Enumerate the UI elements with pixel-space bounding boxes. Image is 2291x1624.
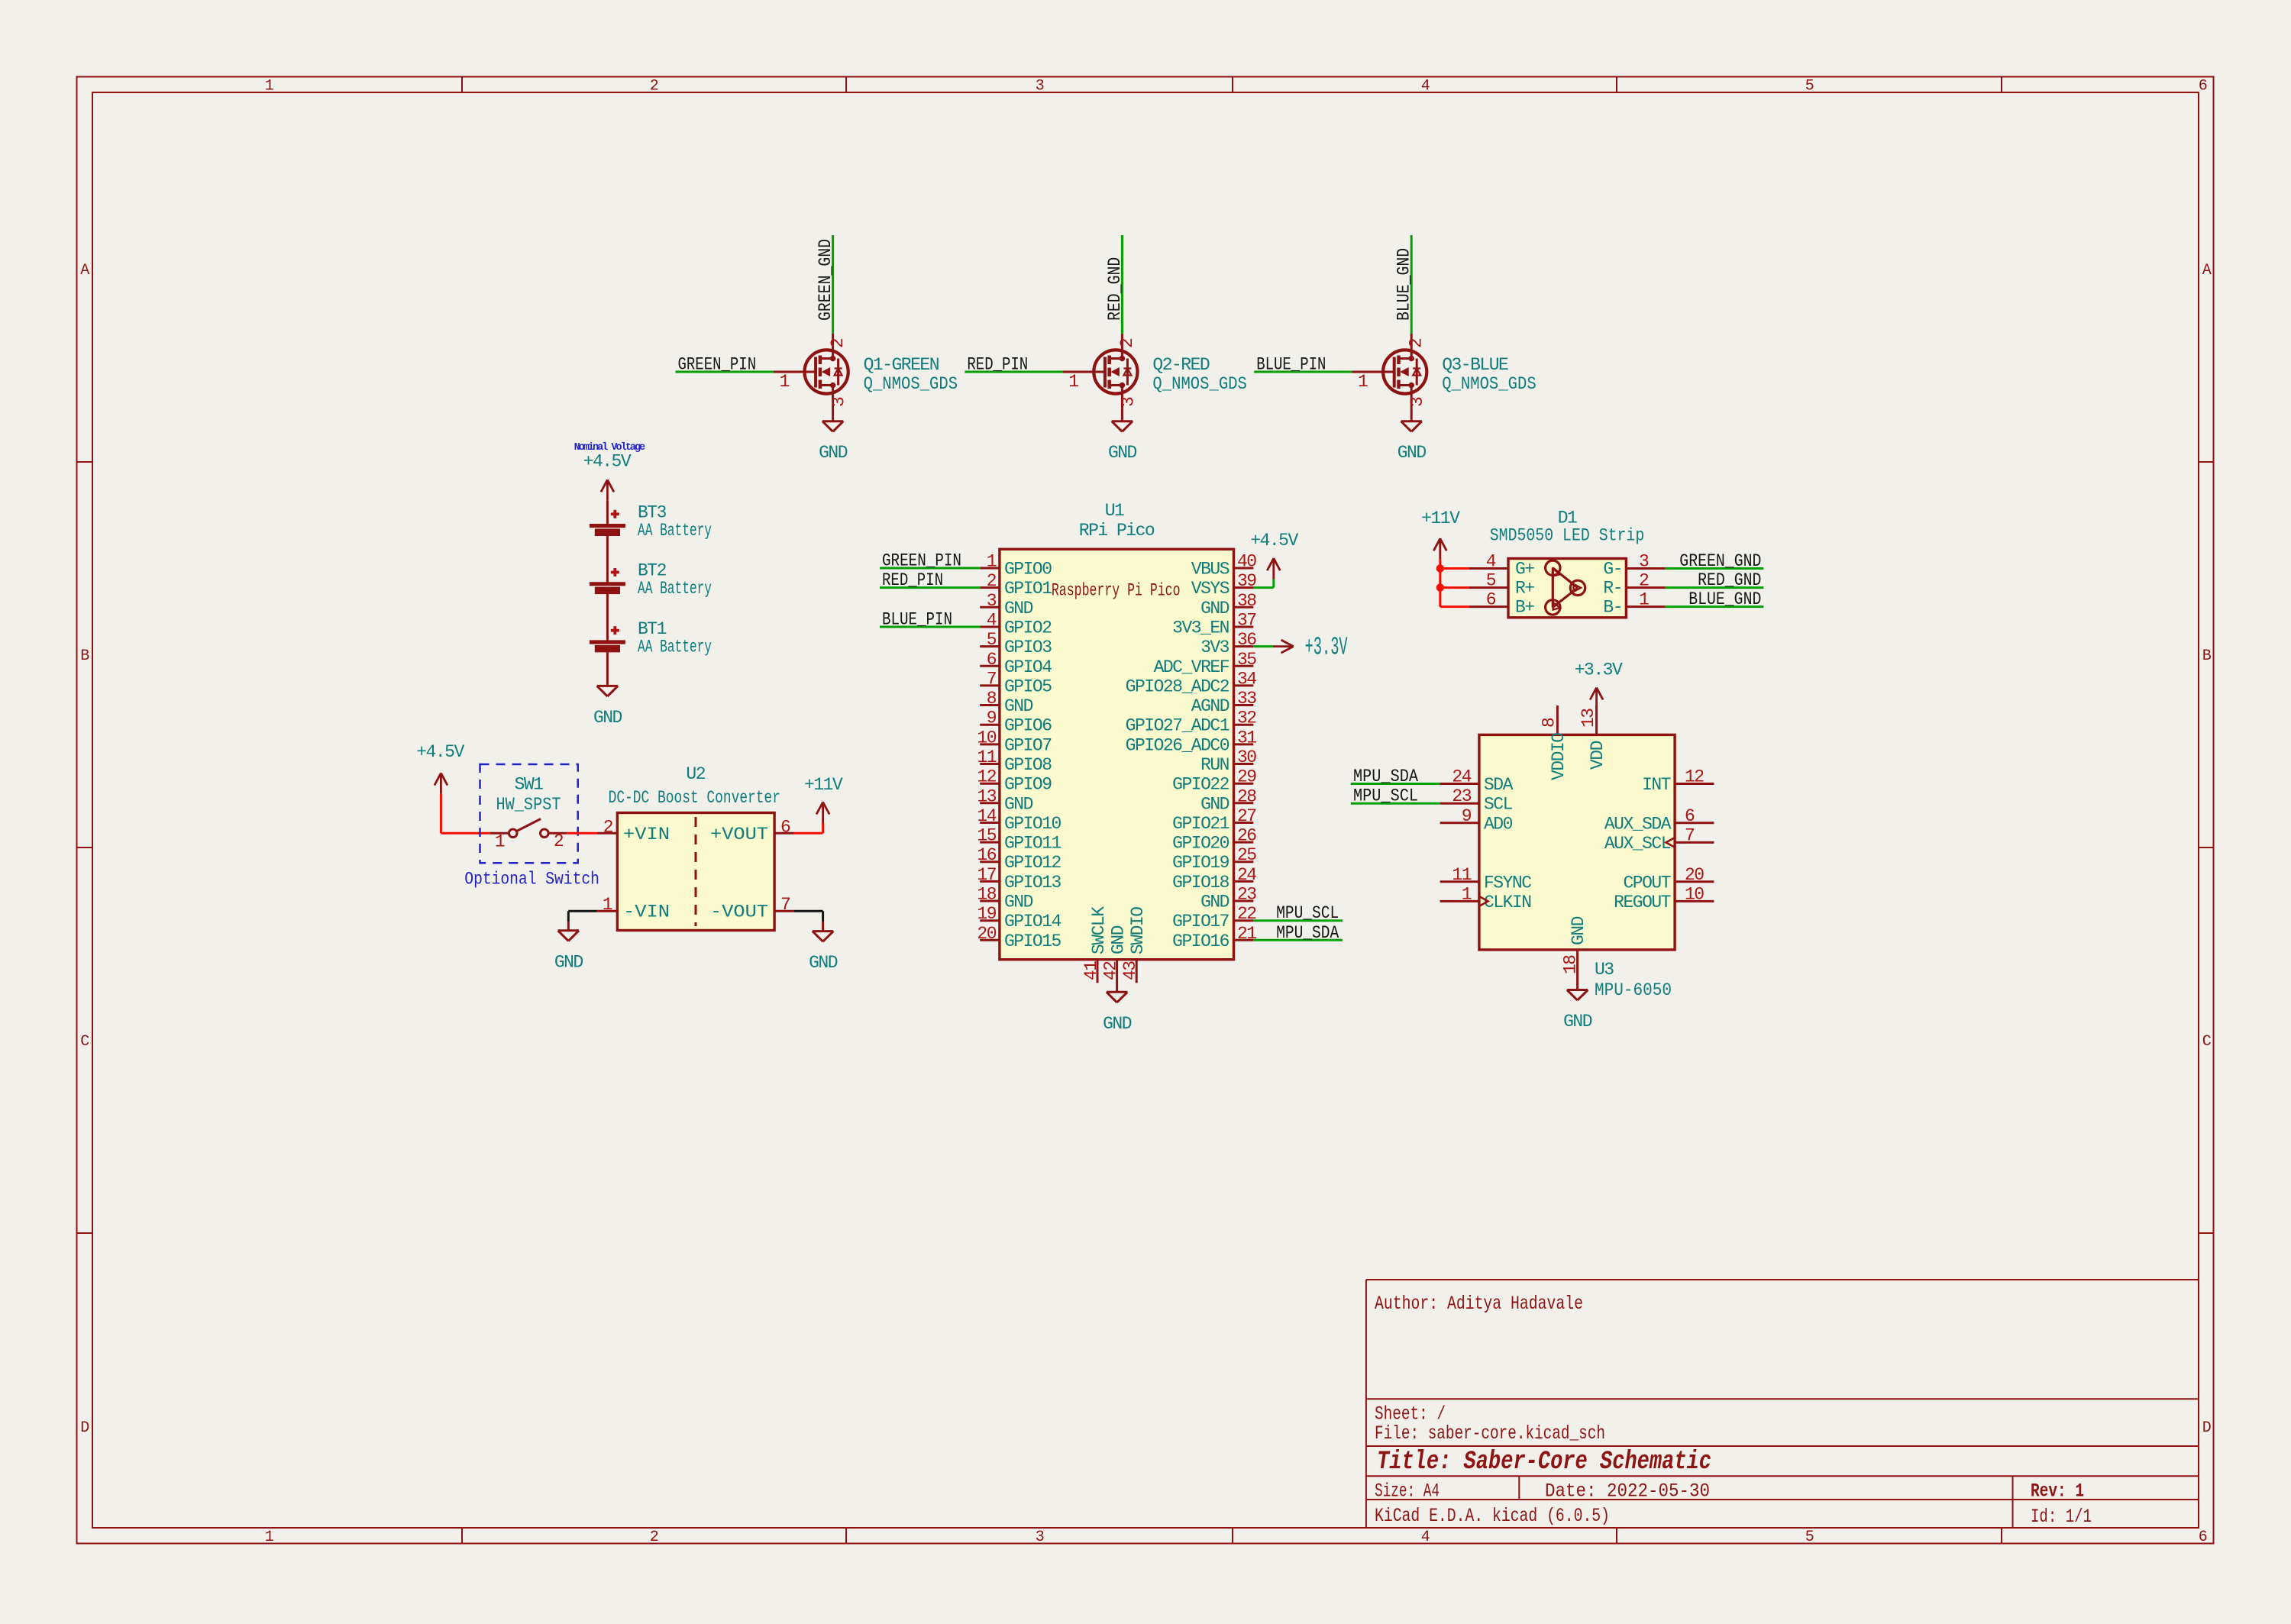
svg-text:32: 32 bbox=[1237, 709, 1256, 728]
svg-text:GPIO9: GPIO9 bbox=[1004, 775, 1052, 795]
svg-text:19: 19 bbox=[977, 904, 996, 924]
svg-text:10: 10 bbox=[977, 728, 996, 747]
svg-text:GND: GND bbox=[1004, 696, 1033, 716]
svg-text:GPIO19: GPIO19 bbox=[1172, 853, 1230, 873]
svg-text:GND: GND bbox=[1109, 925, 1129, 954]
U1 pin 35 ADC_VREF bbox=[1154, 650, 1257, 677]
svg-text:35: 35 bbox=[1237, 650, 1256, 670]
svg-text:+4.5V: +4.5V bbox=[416, 742, 464, 762]
svg-text:GND: GND bbox=[1004, 794, 1033, 814]
svg-text:5: 5 bbox=[987, 630, 997, 650]
svg-text:4: 4 bbox=[1421, 78, 1430, 95]
U1 pin 5 GPIO3 bbox=[980, 630, 1052, 657]
U1 pin 28 GND bbox=[1200, 786, 1256, 814]
svg-text:C: C bbox=[80, 1033, 89, 1051]
svg-text:7: 7 bbox=[987, 669, 996, 689]
svg-text:+11V: +11V bbox=[1421, 509, 1460, 528]
microcontroller U1 body bbox=[1000, 549, 1234, 959]
svg-text:10: 10 bbox=[1685, 884, 1704, 904]
svg-text:5: 5 bbox=[1805, 1529, 1814, 1546]
svg-text:GPIO22: GPIO22 bbox=[1172, 775, 1230, 795]
U1 pin 24 GPIO18 bbox=[1172, 865, 1256, 893]
U1 pin 26 GPIO20 bbox=[1172, 826, 1256, 854]
wire net GREEN_PIN horizontal bbox=[676, 371, 774, 373]
svg-text:25: 25 bbox=[1237, 845, 1256, 865]
svg-text:3: 3 bbox=[1118, 397, 1138, 407]
svg-text:11: 11 bbox=[1452, 865, 1471, 885]
svg-text:B-: B- bbox=[1603, 598, 1622, 618]
svg-text:4: 4 bbox=[1486, 552, 1496, 572]
svg-text:U2: U2 bbox=[686, 764, 705, 784]
svg-text:BLUE_GND: BLUE_GND bbox=[1688, 589, 1761, 609]
svg-text:1: 1 bbox=[265, 78, 274, 95]
svg-text:GND: GND bbox=[1398, 443, 1427, 463]
svg-text:MPU_SCL: MPU_SCL bbox=[1353, 786, 1418, 806]
frame row ticks left bbox=[77, 462, 93, 1233]
svg-text:BT2: BT2 bbox=[638, 561, 667, 581]
svg-text:+11V: +11V bbox=[804, 775, 843, 795]
frame column ticks top bbox=[462, 77, 2002, 93]
svg-text:GPIO11: GPIO11 bbox=[1004, 834, 1061, 854]
svg-text:G+: G+ bbox=[1515, 560, 1534, 580]
svg-text:SMD5050 LED Strip: SMD5050 LED Strip bbox=[1490, 526, 1645, 546]
svg-text:GPIO2: GPIO2 bbox=[1004, 618, 1052, 638]
svg-text:9: 9 bbox=[987, 709, 997, 728]
svg-text:28: 28 bbox=[1237, 786, 1256, 806]
svg-text:18: 18 bbox=[977, 885, 996, 905]
svg-text:1: 1 bbox=[265, 1529, 274, 1546]
svg-text:37: 37 bbox=[1237, 611, 1256, 631]
svg-text:AD0: AD0 bbox=[1484, 814, 1513, 834]
svg-text:GPIO28_ADC2: GPIO28_ADC2 bbox=[1126, 676, 1230, 696]
svg-text:14: 14 bbox=[977, 806, 996, 826]
U3 pin 23 SCL bbox=[1440, 786, 1513, 815]
svg-text:GREEN_PIN: GREEN_PIN bbox=[678, 355, 757, 375]
U1 pin 2 GPIO1 bbox=[980, 571, 1052, 599]
svg-text:1: 1 bbox=[1358, 372, 1368, 392]
wire MPU_SCL at U1 pin 22 bbox=[1253, 919, 1343, 922]
U3 pin 7 AUX_SCL bbox=[1604, 825, 1714, 854]
led strip D1 body bbox=[1508, 559, 1626, 618]
U1 pin 10 GPIO7 bbox=[977, 728, 1051, 755]
svg-text:GPIO12: GPIO12 bbox=[1004, 853, 1061, 873]
svg-text:RED_GND: RED_GND bbox=[1105, 257, 1125, 321]
svg-text:3: 3 bbox=[829, 397, 849, 407]
svg-text:2: 2 bbox=[650, 78, 658, 95]
svg-text:3: 3 bbox=[1036, 78, 1044, 95]
svg-text:RED_PIN: RED_PIN bbox=[882, 570, 943, 590]
svg-text:R+: R+ bbox=[1515, 579, 1534, 599]
svg-text:2: 2 bbox=[1407, 338, 1427, 348]
svg-text:GPIO21: GPIO21 bbox=[1172, 814, 1230, 834]
svg-text:BLUE_PIN: BLUE_PIN bbox=[1256, 355, 1326, 375]
ground GND at Q1-GREEN bbox=[819, 421, 848, 463]
U3 pin 18 GND bbox=[1561, 916, 1589, 990]
wire MPU_SDA at U1 pin 21 bbox=[1253, 939, 1343, 941]
svg-text:ADC_VREF: ADC_VREF bbox=[1154, 657, 1230, 677]
svg-text:+VIN: +VIN bbox=[623, 825, 670, 844]
svg-text:6: 6 bbox=[1486, 590, 1496, 610]
svg-text:+3.3V: +3.3V bbox=[1305, 634, 1348, 662]
D1 LED glyph bbox=[1546, 560, 1585, 615]
svg-text:Raspberry Pi Pico: Raspberry Pi Pico bbox=[1052, 581, 1181, 601]
U1 pin 40 VBUS bbox=[1191, 552, 1257, 580]
U1 pin 16 GPIO12 bbox=[977, 845, 1061, 873]
U1 pin 41 SWCLK bbox=[1081, 906, 1109, 983]
U3 CLKIN clock marker bbox=[1479, 896, 1488, 906]
U1 pin 7 GPIO5 bbox=[980, 669, 1052, 696]
svg-text:GPIO1: GPIO1 bbox=[1004, 579, 1052, 599]
svg-text:BT1: BT1 bbox=[638, 619, 667, 639]
svg-text:27: 27 bbox=[1237, 806, 1256, 826]
svg-text:GPIO16: GPIO16 bbox=[1172, 931, 1230, 951]
svg-text:30: 30 bbox=[1237, 747, 1256, 767]
svg-text:3: 3 bbox=[987, 591, 997, 611]
svg-text:16: 16 bbox=[977, 845, 996, 865]
svg-text:Q2-RED: Q2-RED bbox=[1152, 355, 1210, 375]
wire U2 -VOUT to GND (black) bbox=[794, 911, 823, 931]
frame row ticks right bbox=[2199, 462, 2215, 1233]
svg-text:Q_NMOS_GDS: Q_NMOS_GDS bbox=[1152, 374, 1247, 394]
power symbol +11V at U2 bbox=[804, 775, 843, 823]
svg-text:GND: GND bbox=[1004, 599, 1033, 618]
frame column ticks bottom bbox=[462, 1528, 2002, 1544]
svg-text:INT: INT bbox=[1642, 775, 1671, 795]
svg-text:MPU_SCL: MPU_SCL bbox=[1276, 903, 1339, 923]
svg-text:DC-DC Boost Converter: DC-DC Boost Converter bbox=[609, 788, 780, 808]
svg-text:Q_NMOS_GDS: Q_NMOS_GDS bbox=[1442, 374, 1536, 394]
wire MPU_SDA to U3 pin 24 bbox=[1351, 783, 1440, 785]
power symbol +4.5V at battery bbox=[583, 452, 632, 501]
U1 pin 19 GPIO14 bbox=[977, 904, 1061, 931]
svg-text:2: 2 bbox=[1117, 338, 1137, 348]
svg-text:GPIO8: GPIO8 bbox=[1004, 755, 1052, 775]
svg-text:GND: GND bbox=[1200, 794, 1230, 814]
svg-text:1: 1 bbox=[1639, 590, 1649, 610]
svg-text:20: 20 bbox=[1685, 865, 1704, 885]
svg-text:GPIO26_ADC0: GPIO26_ADC0 bbox=[1126, 735, 1230, 755]
svg-text:18: 18 bbox=[1561, 955, 1581, 974]
svg-text:RED_GND: RED_GND bbox=[1698, 570, 1761, 590]
U1 pin 17 GPIO13 bbox=[977, 865, 1061, 893]
svg-text:2: 2 bbox=[603, 818, 613, 838]
svg-text:GPIO20: GPIO20 bbox=[1172, 834, 1230, 854]
battery BT2 bbox=[590, 532, 625, 590]
U1 pin 21 GPIO16 bbox=[1172, 924, 1256, 951]
svg-text:4: 4 bbox=[987, 611, 997, 631]
battery BT1 bbox=[590, 590, 625, 648]
svg-text:GPIO0: GPIO0 bbox=[1004, 560, 1052, 580]
svg-text:FSYNC: FSYNC bbox=[1484, 873, 1531, 893]
U1 pin 30 RUN bbox=[1200, 747, 1256, 775]
svg-text:Optional Switch: Optional Switch bbox=[464, 869, 599, 889]
svg-text:7: 7 bbox=[1685, 825, 1694, 845]
U3 pin 1 CLKIN bbox=[1440, 884, 1531, 912]
svg-text:Nominal Voltage: Nominal Voltage bbox=[574, 442, 645, 454]
U1 pin 23 GND bbox=[1200, 885, 1256, 912]
svg-text:13: 13 bbox=[977, 786, 996, 806]
svg-text:29: 29 bbox=[1237, 767, 1256, 787]
wire net BLUE_GND vertical bbox=[1410, 235, 1413, 334]
svg-text:CLKIN: CLKIN bbox=[1484, 893, 1531, 912]
wire battery BT1 to GND bbox=[606, 649, 609, 686]
ground GND at Q2-RED bbox=[1108, 421, 1137, 463]
D1 pin 2 R- bbox=[1603, 571, 1665, 599]
svg-text:MPU_SDA: MPU_SDA bbox=[1276, 923, 1339, 943]
U3 pin 13 VDD bbox=[1578, 705, 1608, 770]
svg-text:24: 24 bbox=[1452, 767, 1471, 787]
U3 AUX_SCL clock marker bbox=[1666, 838, 1675, 848]
svg-text:6: 6 bbox=[780, 818, 790, 838]
U1 pin 11 GPIO8 bbox=[977, 747, 1052, 775]
svg-text:GPIO27_ADC1: GPIO27_ADC1 bbox=[1126, 716, 1230, 736]
wire U2 +VOUT to +11V (red) bbox=[794, 823, 823, 833]
svg-text:1: 1 bbox=[1462, 884, 1472, 904]
svg-text:GREEN_GND: GREEN_GND bbox=[1679, 551, 1761, 571]
svg-text:GND: GND bbox=[554, 952, 583, 972]
svg-text:GPIO15: GPIO15 bbox=[1004, 931, 1061, 951]
svg-text:5: 5 bbox=[1805, 78, 1814, 95]
svg-text:11: 11 bbox=[977, 747, 996, 767]
svg-text:MPU-6050: MPU-6050 bbox=[1595, 980, 1672, 1000]
svg-text:GPIO14: GPIO14 bbox=[1004, 912, 1061, 931]
U1 pin 27 GPIO21 bbox=[1172, 806, 1255, 834]
svg-text:BLUE_PIN: BLUE_PIN bbox=[882, 610, 952, 630]
svg-text:MPU_SDA: MPU_SDA bbox=[1353, 767, 1418, 786]
svg-text:AA Battery: AA Battery bbox=[638, 637, 712, 657]
svg-text:26: 26 bbox=[1237, 826, 1256, 846]
svg-text:G-: G- bbox=[1603, 560, 1622, 580]
svg-text:GND: GND bbox=[1108, 443, 1137, 463]
svg-text:7: 7 bbox=[780, 895, 790, 915]
svg-text:20: 20 bbox=[977, 924, 996, 944]
transistor Q2-RED bbox=[1063, 334, 1138, 421]
svg-text:HW_SPST: HW_SPST bbox=[496, 795, 561, 815]
svg-text:-VIN: -VIN bbox=[623, 902, 670, 922]
U1 pin 6 GPIO4 bbox=[980, 650, 1052, 677]
svg-text:File: saber-core.kicad_sch: File: saber-core.kicad_sch bbox=[1375, 1422, 1605, 1445]
svg-text:VDDIO: VDDIO bbox=[1549, 733, 1569, 780]
U1 pin 29 GPIO22 bbox=[1172, 767, 1256, 795]
title block frame bbox=[1366, 1280, 2199, 1528]
svg-text:D: D bbox=[2202, 1419, 2211, 1437]
U1 pin 34 GPIO28_ADC2 bbox=[1126, 669, 1257, 696]
svg-text:33: 33 bbox=[1237, 689, 1256, 709]
transistor Q3-BLUE bbox=[1352, 334, 1427, 421]
svg-text:GPIO13: GPIO13 bbox=[1004, 873, 1061, 893]
U1 pin 31 GPIO26_ADC0 bbox=[1126, 728, 1257, 755]
svg-text:-VOUT: -VOUT bbox=[710, 902, 768, 922]
U1 pin 32 GPIO27_ADC1 bbox=[1126, 709, 1257, 736]
U1 pin 42 GND bbox=[1101, 925, 1129, 992]
U1 pin 9 GPIO6 bbox=[980, 709, 1052, 736]
U1 pin 4 GPIO2 bbox=[980, 611, 1052, 638]
svg-text:42: 42 bbox=[1101, 961, 1121, 980]
svg-text:SWDIO: SWDIO bbox=[1128, 907, 1148, 954]
svg-text:GREEN_PIN: GREEN_PIN bbox=[882, 551, 961, 571]
wire RED_PIN to U1 pin 2 bbox=[880, 586, 980, 589]
svg-text:6: 6 bbox=[2199, 1529, 2207, 1546]
svg-text:15: 15 bbox=[977, 826, 996, 846]
D1 pin 4 G+ bbox=[1469, 552, 1535, 580]
svg-text:38: 38 bbox=[1237, 591, 1256, 611]
svg-text:+4.5V: +4.5V bbox=[583, 452, 632, 472]
svg-text:Author: Aditya Hadavale: Author: Aditya Hadavale bbox=[1375, 1293, 1583, 1315]
svg-text:+4.5V: +4.5V bbox=[1250, 531, 1298, 550]
power symbol +11V at D1 bbox=[1421, 509, 1460, 560]
svg-text:VSYS: VSYS bbox=[1191, 579, 1230, 599]
svg-text:R-: R- bbox=[1603, 579, 1622, 599]
U1 pin 3 GND bbox=[980, 591, 1032, 618]
svg-text:+3.3V: +3.3V bbox=[1575, 660, 1623, 680]
svg-text:1: 1 bbox=[987, 552, 997, 572]
wire +11V rail to D1 (red) bbox=[1440, 560, 1469, 607]
D1 pin 6 B+ bbox=[1469, 590, 1535, 618]
wire net GREEN_GND at D1 bbox=[1666, 567, 1764, 570]
svg-text:GND: GND bbox=[593, 708, 622, 728]
svg-text:40: 40 bbox=[1237, 552, 1256, 572]
D1 pin 1 B- bbox=[1603, 590, 1665, 618]
svg-text:SCL: SCL bbox=[1484, 795, 1513, 815]
svg-text:31: 31 bbox=[1237, 728, 1256, 747]
svg-text:VDD: VDD bbox=[1588, 741, 1608, 770]
svg-text:Q3-BLUE: Q3-BLUE bbox=[1442, 355, 1508, 375]
power symbol +3.3V at U1 3V3 bbox=[1273, 634, 1348, 662]
wire +4.5V to SW1 pin 1 (red) bbox=[441, 794, 490, 833]
transistor Q1-GREEN bbox=[774, 334, 848, 421]
wire net GREEN_GND vertical bbox=[832, 235, 834, 334]
svg-text:13: 13 bbox=[1578, 709, 1598, 728]
U1 pin 25 GPIO19 bbox=[1172, 845, 1256, 873]
svg-text:RUN: RUN bbox=[1200, 755, 1229, 775]
svg-text:1: 1 bbox=[495, 832, 505, 852]
svg-text:B: B bbox=[80, 647, 89, 665]
svg-text:9: 9 bbox=[1462, 806, 1472, 826]
svg-text:1: 1 bbox=[1068, 372, 1078, 392]
svg-text:GND: GND bbox=[819, 443, 848, 463]
U2 pin 2 +VIN bbox=[598, 832, 618, 835]
U1 pin 39 VSYS bbox=[1191, 571, 1257, 599]
svg-text:23: 23 bbox=[1452, 786, 1471, 806]
optional switch dashed box bbox=[480, 764, 578, 863]
svg-text:CPOUT: CPOUT bbox=[1623, 873, 1670, 893]
svg-text:+VOUT: +VOUT bbox=[710, 825, 768, 844]
svg-text:8: 8 bbox=[1539, 718, 1559, 728]
U1 pin 37 3V3_EN bbox=[1172, 611, 1255, 638]
wire U1 3V3 to +3.3V bbox=[1253, 645, 1273, 647]
D1 pin 5 R+ bbox=[1469, 571, 1535, 599]
ground GND at U2 -VOUT bbox=[809, 931, 838, 973]
U1 pin 12 GPIO9 bbox=[977, 767, 1052, 795]
wire net RED_GND at D1 bbox=[1666, 586, 1764, 589]
svg-text:REGOUT: REGOUT bbox=[1614, 893, 1671, 912]
svg-text:3: 3 bbox=[1407, 397, 1427, 407]
imu U3 body bbox=[1479, 735, 1675, 950]
wire SW1 pin 2 to U2 +VIN (red) bbox=[567, 832, 598, 835]
wire U2 -VIN to GND (black) bbox=[568, 911, 597, 931]
svg-text:GPIO3: GPIO3 bbox=[1004, 638, 1052, 657]
svg-text:GND: GND bbox=[1004, 893, 1033, 912]
ground GND at Q3-BLUE bbox=[1398, 421, 1427, 463]
svg-text:24: 24 bbox=[1237, 865, 1256, 885]
U1 pin 38 GND bbox=[1200, 591, 1256, 618]
U3 pin 20 CPOUT bbox=[1623, 865, 1714, 893]
svg-text:Rev: 1: Rev: 1 bbox=[2031, 1480, 2084, 1503]
svg-text:GND: GND bbox=[1103, 1014, 1132, 1034]
svg-text:GND: GND bbox=[809, 953, 838, 973]
wire net RED_GND vertical bbox=[1121, 235, 1123, 334]
ground GND at U1 bbox=[1103, 992, 1132, 1034]
ground GND at U2 -VIN bbox=[554, 931, 583, 973]
svg-text:3V3_EN: 3V3_EN bbox=[1172, 618, 1229, 638]
svg-text:Date: 2022-05-30: Date: 2022-05-30 bbox=[1545, 1480, 1710, 1503]
svg-text:2: 2 bbox=[650, 1529, 658, 1546]
U1 pin 1 GPIO0 bbox=[980, 552, 1052, 580]
U1 pin 8 GND bbox=[980, 689, 1032, 716]
junction at D1 R+ bbox=[1436, 583, 1444, 591]
power symbol +4.5V at U1 VSYS bbox=[1250, 531, 1298, 580]
U1 pin 43 SWDIO bbox=[1120, 907, 1148, 983]
converter U2 body bbox=[617, 813, 774, 931]
svg-text:GPIO18: GPIO18 bbox=[1172, 873, 1230, 893]
switch SW1 bbox=[490, 819, 567, 838]
svg-text:12: 12 bbox=[977, 767, 996, 787]
svg-text:BLUE_GND: BLUE_GND bbox=[1394, 248, 1414, 321]
svg-text:VBUS: VBUS bbox=[1191, 560, 1230, 580]
svg-text:AUX_SDA: AUX_SDA bbox=[1604, 814, 1672, 834]
svg-text:GND: GND bbox=[1569, 916, 1588, 945]
U3 pin 24 SDA bbox=[1440, 767, 1514, 796]
svg-text:GPIO6: GPIO6 bbox=[1004, 716, 1052, 736]
U1 pin 20 GPIO15 bbox=[977, 924, 1061, 951]
U2 pin 7 -VOUT bbox=[774, 910, 794, 912]
U2 pin 6 +VOUT bbox=[774, 832, 794, 835]
svg-text:A: A bbox=[2202, 262, 2212, 279]
U1 pin 15 GPIO11 bbox=[977, 826, 1061, 854]
U2 internal dashed divider bbox=[695, 817, 697, 926]
D1 pin 3 G- bbox=[1603, 552, 1665, 580]
svg-text:1: 1 bbox=[603, 895, 612, 915]
wire net BLUE_PIN horizontal bbox=[1254, 371, 1352, 373]
svg-text:KiCad E.D.A. kicad (6.0.5): KiCad E.D.A. kicad (6.0.5) bbox=[1375, 1505, 1610, 1527]
svg-text:GND: GND bbox=[1200, 893, 1230, 912]
svg-text:8: 8 bbox=[987, 689, 997, 709]
U1 pin 33 AGND bbox=[1191, 689, 1257, 716]
svg-text:C: C bbox=[2202, 1033, 2212, 1051]
battery BT3 bbox=[590, 501, 625, 532]
svg-text:4: 4 bbox=[1421, 1529, 1430, 1546]
svg-text:A: A bbox=[80, 262, 89, 279]
svg-text:BT3: BT3 bbox=[638, 503, 667, 523]
wire net BLUE_GND at D1 bbox=[1666, 605, 1764, 608]
svg-text:3: 3 bbox=[1639, 552, 1649, 572]
svg-text:GPIO7: GPIO7 bbox=[1004, 735, 1052, 755]
svg-text:AUX_SCL: AUX_SCL bbox=[1604, 834, 1671, 854]
svg-text:Title: Saber-Core Schematic: Title: Saber-Core Schematic bbox=[1377, 1448, 1711, 1477]
svg-text:GND: GND bbox=[1563, 1012, 1592, 1032]
frame row labels bbox=[80, 262, 2212, 1437]
svg-text:AA Battery: AA Battery bbox=[638, 521, 712, 541]
svg-text:34: 34 bbox=[1237, 669, 1256, 689]
svg-text:6: 6 bbox=[987, 650, 997, 670]
ground GND at battery bbox=[593, 686, 622, 728]
svg-text:D: D bbox=[80, 1419, 89, 1437]
svg-text:GPIO17: GPIO17 bbox=[1172, 912, 1229, 931]
svg-text:6: 6 bbox=[2199, 78, 2207, 95]
U1 pin 22 GPIO17 bbox=[1172, 904, 1256, 931]
svg-text:3V3: 3V3 bbox=[1200, 638, 1230, 657]
svg-text:GND: GND bbox=[1200, 599, 1230, 618]
